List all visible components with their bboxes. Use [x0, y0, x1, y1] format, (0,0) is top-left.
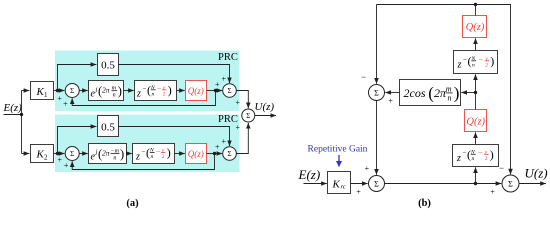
svg-text:z: z: [456, 153, 461, 164]
svg-text:rc: rc: [341, 184, 346, 191]
svg-text:Σ: Σ: [227, 150, 231, 158]
block z^-(N/n - g/2) (bottom): [133, 144, 175, 164]
summer S2: [65, 147, 79, 161]
wire left sum down to bottom sum: [376, 101, 378, 175]
svg-text:+: +: [221, 137, 226, 146]
svg-text:−: −: [361, 72, 366, 82]
svg-text:): ): [167, 146, 171, 160]
svg-text:+: +: [490, 188, 495, 197]
wire 0.5 to PRC sum (bottom): [119, 127, 230, 147]
filter block Q(z) (bottom): [186, 144, 207, 164]
wire tap up to 0.5 block (bottom): [58, 127, 97, 154]
svg-text:n: n: [448, 94, 452, 103]
node tap to 0.5 (top): [56, 89, 59, 92]
svg-text:Σ: Σ: [246, 112, 250, 120]
wire delay to Q block (top): [177, 90, 185, 92]
wire branch vertical: [21, 91, 23, 154]
svg-text:−: −: [142, 147, 146, 155]
svg-text:2: 2: [485, 156, 488, 162]
block z^-(N/n - g/2) top (b): [454, 51, 498, 74]
wire top line to left sum: [376, 5, 378, 84]
gain block K2: [31, 145, 54, 163]
wire Qmid up to junction: [475, 93, 477, 110]
wire 0.5 to PRC sum (top): [119, 65, 230, 84]
svg-text:−: −: [156, 147, 161, 156]
cyan PRC panel (top): [55, 51, 240, 112]
block z^-(N/n - g/2) (top): [135, 81, 177, 101]
block 2cos(2pi m/n): [400, 80, 461, 106]
svg-text:+: +: [235, 123, 240, 132]
svg-text:z: z: [457, 60, 462, 71]
wire Q to PRC sum (bottom): [207, 153, 223, 155]
svg-text:−: −: [143, 85, 147, 93]
gain block 0.5 (bottom): [98, 116, 119, 137]
node feedback tap (top): [214, 89, 217, 92]
gain block K1: [31, 82, 54, 100]
svg-text:2: 2: [44, 154, 48, 162]
svg-text:−: −: [463, 56, 467, 64]
node input junction: [20, 113, 23, 116]
svg-text:): ): [168, 83, 172, 97]
svg-text:n: n: [113, 155, 116, 161]
node bottom row junction: [474, 182, 477, 185]
svg-text:): ): [118, 84, 122, 98]
svg-text:Q(z): Q(z): [466, 117, 485, 128]
wire output U(z) (a): [255, 115, 276, 117]
svg-text:+: +: [215, 80, 220, 89]
filter block Q(z) middle (b): [465, 110, 487, 132]
wire Krc to bottom sum: [351, 183, 368, 185]
wire junction to 2cos: [461, 92, 475, 94]
svg-text:−: −: [463, 149, 467, 157]
arrow repetitive gain pointer: [338, 155, 340, 167]
wire output U(z) (b): [519, 183, 546, 185]
svg-text:2: 2: [485, 62, 488, 68]
svg-text:2π: 2π: [102, 86, 110, 95]
node top line junction: [474, 3, 477, 6]
svg-text:m: m: [446, 85, 452, 94]
svg-text:Σ: Σ: [70, 150, 74, 158]
svg-text:): ): [490, 54, 494, 68]
svg-text:−: −: [499, 163, 504, 173]
svg-text:Q(z): Q(z): [188, 149, 204, 159]
wire bottom row junction to zbot: [475, 167, 477, 183]
wire Qtop to top line: [475, 5, 477, 16]
svg-text:Σ: Σ: [227, 87, 231, 95]
svg-text:K: K: [332, 178, 341, 190]
svg-text:−: −: [479, 55, 484, 64]
svg-text:2cos: 2cos: [404, 86, 426, 100]
block exp(j 2pi -m/n) (bottom): [89, 144, 127, 164]
svg-text:n: n: [472, 62, 475, 68]
filter block Q(z) (top): [186, 81, 207, 101]
wire ztop to Qtop: [475, 38, 477, 50]
svg-text:+: +: [64, 161, 69, 170]
wire E(z) to Krc: [304, 183, 327, 185]
svg-text:+: +: [235, 98, 240, 107]
summer S8 final (b): [502, 175, 519, 192]
wire top feedback line (b): [377, 5, 511, 175]
wire PRC S3 to final sum (top): [236, 91, 248, 109]
svg-text:n: n: [151, 154, 154, 160]
cyan PRC panel (bottom): [55, 115, 240, 173]
wire delay to Q block (bottom): [175, 153, 185, 155]
block exp(j 2pi m/n) (top): [89, 81, 124, 101]
summer S5 final (a): [242, 109, 255, 122]
wire K2 to sum S2: [54, 153, 65, 155]
svg-text:+: +: [365, 164, 370, 173]
svg-text:): ): [120, 147, 124, 161]
wire to K2: [22, 153, 30, 155]
svg-text:2: 2: [162, 154, 165, 160]
svg-text:+: +: [221, 74, 226, 83]
svg-text:+: +: [388, 97, 393, 106]
svg-text:U(z): U(z): [525, 166, 548, 181]
wire feedback loop (top): [72, 91, 215, 106]
wire junction to ztop: [475, 74, 477, 92]
svg-text:Σ: Σ: [70, 87, 74, 95]
wire tap up to 0.5 block (top): [58, 65, 97, 91]
summer PRC S3 (top): [223, 84, 237, 98]
svg-text:): ): [490, 148, 494, 162]
svg-text:+: +: [57, 155, 62, 164]
svg-text:Σ: Σ: [374, 88, 379, 97]
svg-text:Σ: Σ: [374, 179, 379, 188]
svg-text:Q(z): Q(z): [188, 86, 204, 96]
wire S2 to exp block (bottom): [79, 153, 88, 155]
filter block Q(z) top (b): [463, 16, 487, 38]
gain block Krc: [328, 172, 351, 194]
svg-text:Σ: Σ: [508, 179, 513, 188]
wire to K1: [22, 90, 30, 92]
summer S6 left (b): [369, 85, 385, 101]
wire bottom sum to final sum: [385, 183, 502, 185]
svg-text:0.5: 0.5: [101, 60, 115, 72]
svg-text:1: 1: [44, 91, 48, 99]
wire Q to PRC sum (top): [207, 90, 223, 92]
svg-text:+: +: [215, 143, 220, 152]
gain block 0.5 (top): [98, 54, 119, 76]
node tap to 0.5 (bottom): [56, 152, 59, 155]
svg-text:n: n: [472, 156, 475, 162]
svg-text:E(z): E(z): [3, 102, 23, 114]
wire zbot to Qmid: [475, 132, 477, 144]
summer S1: [65, 84, 79, 98]
svg-text:U(z): U(z): [255, 101, 275, 113]
svg-text:Q(z): Q(z): [466, 22, 485, 33]
svg-text:−: −: [157, 84, 162, 93]
svg-text:(b): (b): [418, 198, 431, 209]
svg-text:): ): [454, 83, 460, 102]
svg-text:z: z: [135, 151, 140, 162]
svg-text:n: n: [152, 91, 155, 97]
svg-text:PRC: PRC: [218, 52, 238, 63]
summer S7 bottom (b): [369, 176, 385, 192]
wire exp to delay block (bottom): [127, 153, 132, 155]
block z^-(N/n - g/2) bottom (b): [453, 145, 499, 167]
wire exp to delay block (top): [124, 90, 134, 92]
wire S1 to exp block (top): [79, 90, 88, 92]
svg-text:2π: 2π: [102, 149, 110, 158]
svg-text:+: +: [63, 100, 68, 109]
svg-text:+: +: [356, 188, 361, 197]
wire feedback loop (bottom): [72, 154, 214, 170]
node 2cos tap junction: [474, 91, 477, 94]
svg-text:z: z: [136, 89, 141, 100]
svg-text:0.5: 0.5: [101, 122, 115, 134]
node feedback tap (bottom): [213, 152, 216, 155]
wire PRC S4 to final sum (bottom): [236, 123, 248, 154]
svg-text:+: +: [57, 94, 62, 103]
svg-text:E(z): E(z): [298, 167, 321, 182]
svg-text:−: −: [478, 149, 483, 158]
wire 2cos to left sum: [385, 92, 399, 94]
svg-text:2: 2: [163, 91, 166, 97]
summer PRC S4 (bottom): [223, 147, 237, 161]
svg-text:n: n: [113, 93, 116, 99]
wire E(z) input: [4, 114, 22, 116]
svg-text:Repetitive Gain: Repetitive Gain: [308, 145, 368, 155]
wire K1 to sum S1: [54, 90, 65, 92]
svg-text:(a): (a): [126, 198, 139, 209]
